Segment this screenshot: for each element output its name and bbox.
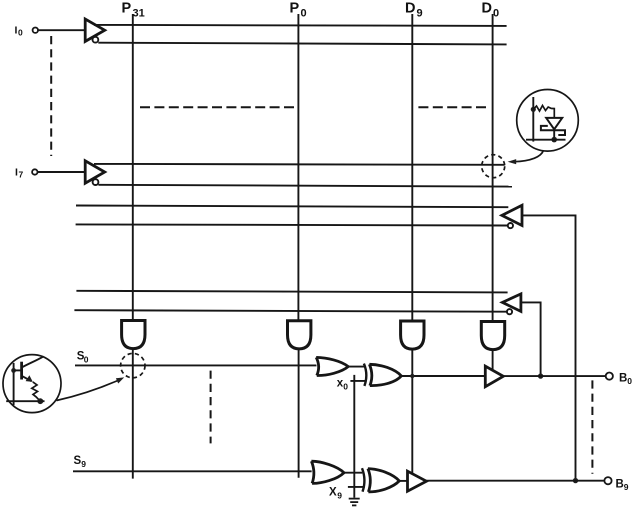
wire U4 input rail from B0	[521, 302, 541, 376]
wire bus row 7	[76, 291, 507, 293]
svg-text:0: 0	[493, 8, 499, 20]
svg-text:S: S	[74, 455, 82, 467]
OR gate O1 (S0 row)	[316, 357, 348, 375]
ground	[349, 499, 360, 506]
AND gate G2 (P0 column)	[288, 321, 311, 349]
svg-text:7: 7	[19, 170, 24, 180]
input terminal I0	[15, 25, 39, 38]
node X9 label	[329, 487, 342, 501]
wire U3 input rail from B9	[522, 215, 576, 480]
junction dot U3 rail to B9 line	[573, 478, 578, 483]
wire diode to bus dot	[553, 129, 555, 139]
wire I0 complement bus (row 2)	[98, 43, 506, 45]
wire D0 column lower (AND4 output to X0 buffer enable)	[492, 350, 494, 370]
OR gate O2 (S9 row)	[311, 461, 344, 483]
junction dot U4 rail to B0 line	[538, 373, 543, 378]
svg-text:0: 0	[627, 376, 632, 386]
wire XOR2 lower input tee	[348, 486, 365, 488]
resistor R2 (detail, emitter)	[32, 382, 41, 401]
buffer U2 (I7 input buffer)	[85, 161, 105, 185]
buffer U1 (I0 input buffer)	[85, 19, 105, 43]
wire B9 output line	[426, 480, 604, 482]
wire dashed ellipsis horizontal left (between P31 and P0)	[140, 106, 294, 108]
XOR gate X9 input arc	[362, 468, 364, 492]
wire XOR1 output to buffer U5	[401, 375, 485, 377]
buffer U6 (B9 output driver)	[408, 471, 427, 491]
svg-text:P: P	[122, 1, 132, 17]
XOR gate X9 body	[368, 469, 399, 492]
wire dashed ellipsis vertical (between B0 and B9)	[591, 380, 593, 473]
node D9 label	[405, 1, 423, 20]
svg-text:D: D	[482, 1, 492, 17]
junction dot base	[11, 368, 16, 373]
wire D9 column upper	[411, 14, 413, 321]
svg-text:9: 9	[337, 491, 342, 501]
svg-text:9: 9	[81, 459, 86, 469]
junction dot XOR1 output at D9 column	[410, 374, 414, 378]
dashed highlight circle (D0 column at I7 bus crosspoint)	[482, 155, 505, 178]
buffer U5 (B0 output driver)	[485, 366, 503, 387]
wire P0 column upper	[297, 14, 299, 321]
svg-text:B: B	[616, 479, 624, 491]
svg-text:0: 0	[84, 355, 89, 365]
svg-text:B: B	[619, 373, 627, 385]
callout leader arrow to dashed circle	[508, 151, 544, 165]
wire D0 column upper	[492, 14, 494, 322]
node D0 label	[482, 1, 500, 20]
node S0 label	[77, 351, 89, 365]
resistor R1 (detail)	[533, 106, 554, 118]
wire S0 row	[75, 364, 317, 366]
output terminal B0	[606, 373, 633, 387]
wire dashed ellipsis vertical (between I0 and I7)	[50, 36, 52, 156]
svg-text:9: 9	[624, 482, 629, 492]
svg-text:9: 9	[417, 8, 423, 20]
transistor Q1 (detail)	[22, 357, 43, 382]
junction dot detail bottom	[551, 137, 557, 143]
output terminal B9	[604, 477, 628, 492]
wire P31 column upper	[132, 14, 134, 321]
wire P31 column lower	[132, 349, 134, 479]
node S9 label	[74, 455, 87, 469]
wire detail column segment (left vertical)	[13, 363, 15, 405]
buffer U4 (B0 read buffer, left-pointing)	[502, 294, 521, 314]
wire I7 true bus (row 3)	[94, 163, 505, 166]
svg-text:0: 0	[301, 8, 307, 20]
svg-text:X: X	[329, 487, 337, 499]
wire dashed ellipsis vertical (between S0 and S9)	[210, 371, 212, 444]
wire bus row 5	[76, 206, 508, 208]
buffer U3 (B9 read buffer, left-pointing)	[502, 205, 522, 228]
wire XOR1 lower input tee	[350, 380, 366, 382]
wire base connection	[14, 369, 22, 371]
wire D9 column lower (AND3 output to X9 buffer enable)	[411, 350, 413, 474]
XOR gate X0 body	[369, 364, 401, 385]
wire bus row 8	[74, 310, 507, 312]
AND gate G3 (D9 column)	[401, 321, 424, 349]
callout leader arrow to dashed circle	[57, 377, 125, 400]
junction dot detail top	[531, 107, 536, 112]
XOR gate X0 input arc	[364, 364, 366, 386]
node P31 label	[122, 1, 145, 20]
dashed highlight circle (P31 column at S0 crosspoint)	[121, 353, 145, 377]
callout circle: crosspoint detail (resistor + Schottky diode)	[517, 90, 579, 152]
wire O1 output to XOR X0	[348, 366, 364, 368]
wire S9 row	[73, 470, 312, 472]
node X0 label	[337, 378, 349, 392]
AND gate G4 (D0 column)	[481, 322, 504, 350]
diode D1 Schottky (detail)	[541, 118, 565, 135]
wire bus row 6	[76, 224, 508, 225]
wire O2 output to XOR X9	[344, 472, 362, 474]
node P0 label	[290, 1, 307, 20]
wire XOR2 output to buffer U6	[399, 480, 407, 482]
wire X0 ground rail	[353, 375, 355, 498]
svg-text:D: D	[405, 1, 415, 17]
AND gate G1 (P31 column)	[122, 321, 145, 349]
wire detail column segment	[532, 97, 534, 142]
wire I0 true bus (row 1)	[94, 25, 507, 26]
input terminal I7	[15, 167, 38, 180]
wire I0 input	[38, 29, 85, 31]
wire dashed ellipsis horizontal right (between D9 and D0)	[418, 106, 486, 108]
wire I7 input	[38, 171, 86, 173]
wire P0 column lower	[298, 350, 300, 478]
svg-text:0: 0	[343, 382, 348, 392]
junction dot emitter to S0	[37, 398, 43, 404]
wire B0 output line	[503, 375, 605, 377]
svg-text:31: 31	[133, 8, 145, 20]
callout circle: crosspoint detail (transistor + resistor)	[3, 355, 61, 413]
svg-text:0: 0	[18, 28, 23, 38]
wire detail S0 segment	[6, 400, 44, 402]
wire I7 complement bus (row 4)	[98, 185, 512, 187]
wire detail bus segment	[526, 139, 566, 141]
